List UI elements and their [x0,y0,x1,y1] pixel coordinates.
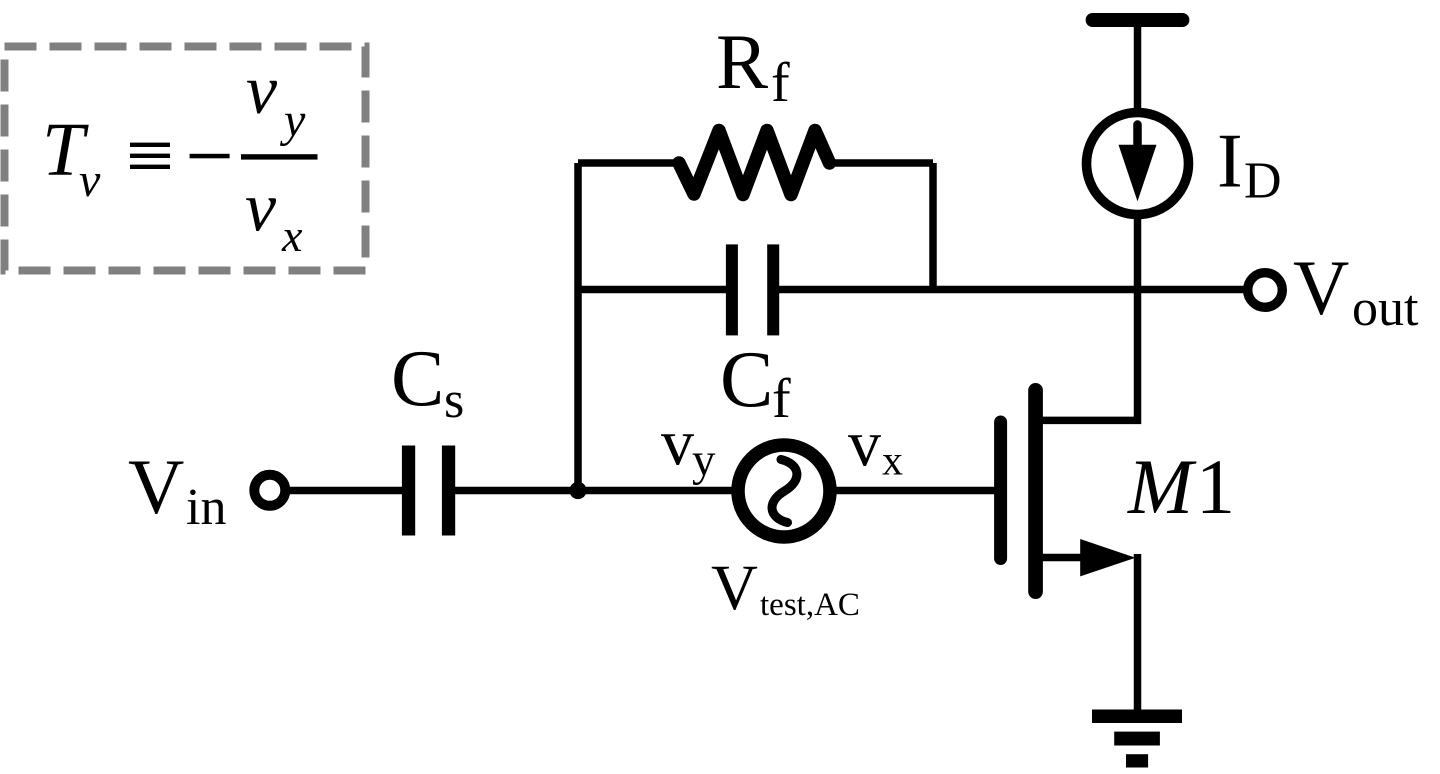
wire: left vertical branch riser [574,163,582,491]
wire: Cf branch left [578,286,727,294]
label Vin [128,443,226,536]
wire: Cf to Vout terminal [778,286,1244,294]
svg-text:V: V [711,552,758,624]
transistor M1 gate bar [994,416,1007,566]
dashed annotation box [5,47,366,271]
svg-text:M: M [1127,443,1197,530]
wire: drain horizontal [1040,417,1141,425]
svg-text:v: v [245,170,277,247]
svg-text:v: v [246,52,278,129]
svg-text:f: f [772,368,791,430]
label M1 [1127,443,1235,530]
wire: source horizontal [1040,554,1086,562]
svg-text:out: out [1352,280,1419,337]
label Rf [716,18,790,114]
transistor M1 channel bar [1028,383,1043,599]
formula T_v [42,108,101,207]
svg-text:f: f [771,52,790,114]
wire: top branch left (to Rf) [578,159,680,167]
svg-text:in: in [186,479,226,536]
formula minus sign [190,154,230,159]
svg-text:x: x [281,210,303,261]
svg-text:v: v [79,154,101,207]
svg-text:C: C [720,336,773,424]
label ID [1217,118,1282,210]
svg-text:v: v [661,407,694,480]
current source ID [1087,113,1189,215]
svg-text:y: y [279,94,306,147]
terminal Vin [254,475,285,506]
formula fraction bar [241,154,318,159]
svg-text:V: V [1293,244,1349,331]
node label vy [661,407,716,487]
transistor M1 source arrow [1080,539,1135,576]
label Vtest,AC [711,552,860,624]
svg-text:I: I [1217,118,1243,204]
wire: top branch right (Rf to right riser) [829,159,933,167]
formula equivalence sign [130,143,170,169]
svg-text:R: R [716,18,768,105]
wire: supply to drain node vertical [1134,20,1142,424]
svg-text:s: s [444,372,464,429]
wire: source vertical to ground [1134,554,1142,713]
svg-text:V: V [128,443,184,530]
supply rail bar [1086,13,1190,27]
capacitor Cs [402,446,455,536]
capacitor Cf [726,244,779,335]
ground symbol [1092,710,1182,768]
svg-text:y: y [692,434,716,486]
label Cs [391,335,464,429]
terminal Vout [1248,273,1283,308]
resistor Rf [679,131,830,195]
svg-text:1: 1 [1196,443,1235,530]
svg-text:x: x [882,439,903,485]
wire: Cs to MOSFET gate (through AC source) [455,487,997,495]
node: junction dot at Cs/feedback [569,482,586,499]
svg-text:test,AC: test,AC [760,587,860,623]
svg-text:v: v [848,408,881,481]
formula numerator v_y [246,52,306,147]
svg-text:C: C [391,335,444,423]
formula denominator v_x [245,170,303,262]
label Vout [1293,244,1419,337]
wire: Vin terminal to Cs [288,487,402,495]
svg-text:D: D [1244,153,1282,210]
node label vx [848,408,903,485]
label Cf [720,336,791,430]
AC test source Vtest,AC [738,445,830,537]
wire: right vertical riser [929,163,937,290]
